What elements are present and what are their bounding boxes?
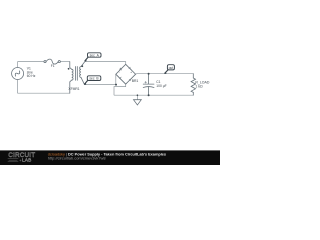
flag out [165,65,175,74]
transformer XFMR1 primary [70,62,72,70]
logo LAB [8,159,19,162]
junction dots [68,65,150,96]
wire sec_B rail [85,84,117,86]
wire V1 top lead [17,62,19,68]
wire sec_A rail [85,62,126,65]
svg-text:XFMR1: XFMR1 [68,87,79,91]
svg-text:+: + [130,70,132,74]
wire top rail V1 to fuse [18,61,44,63]
svg-text:LAB: LAB [22,158,31,164]
node sec_B / bridge junction [115,84,117,86]
BR1 diode marks [119,67,131,80]
transformer polarity dot primary [68,68,70,70]
transformer polarity dot secondary [81,65,83,67]
flag sec_A [85,53,101,61]
svg-text:BR1: BR1 [132,79,139,83]
wire out rail E-corner to load [136,73,194,76]
svg-text:1 kΩ: 1 kΩ [195,84,203,88]
flag sec_B [84,76,101,85]
wire V1 bottom lead [17,80,19,94]
svg-text:http://circuitlab.com/cmev3vk7: http://circuitlab.com/cmev3vk7w8 [48,155,107,160]
node ground junction [137,94,139,96]
labels [27,64,210,91]
node C1 bottom [148,94,150,96]
fuse F1 [44,61,46,63]
wire ground stub [136,95,138,100]
wire bottom rail V1 to transformer [18,92,70,94]
transformer XFMR1 secondary [81,62,85,67]
svg-text:60 Hz: 60 Hz [27,74,36,78]
svg-text:-: - [119,70,120,74]
transformer core [76,67,78,81]
voltage source V1 [12,68,24,80]
svg-text:out: out [169,66,174,70]
node C1 top [148,73,150,75]
resistor R_LOAD [192,74,194,78]
svg-text:sec_A: sec_A [90,53,100,57]
wire BR1 W-corner down to sec_B junction [115,74,117,84]
wire fuse to transformer [60,61,69,63]
capacitor C1 [148,74,150,84]
bottom bar [0,150,220,165]
svg-text:100 µF: 100 µF [156,84,166,88]
bridge BR1 diamond [116,64,136,84]
ground [134,100,142,105]
svg-text:sec_B: sec_B [89,77,99,81]
wire bottom rail [114,94,193,96]
svg-text:F1: F1 [51,64,55,68]
wire BR1 S-corner dogleg to bottom rail [114,84,126,95]
